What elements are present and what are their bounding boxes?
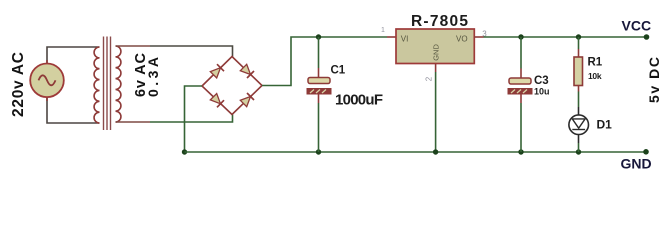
svg-text:C3: C3 [534, 75, 549, 87]
junction C3 top [518, 34, 523, 39]
wire VCC rail right [484, 36, 647, 38]
junction R1 top [576, 34, 581, 39]
junction C1 top [316, 34, 321, 39]
wire D1 to ground rail [578, 143, 580, 152]
junction regulator ground [433, 149, 438, 154]
bridge rectifier diamond [202, 57, 262, 115]
transformer TR1 secondary winding [116, 46, 121, 122]
ac source V1 [30, 60, 64, 101]
svg-text:0.3A: 0.3A [145, 57, 161, 97]
wire secondary bottom to bridge [116, 115, 233, 123]
node GND endpoint [643, 149, 649, 155]
junction C3 bottom [518, 149, 523, 154]
voltage regulator U1 R-7805 [387, 13, 474, 64]
value 1000uF [335, 92, 383, 109]
diode lower-left [210, 94, 224, 108]
wire ground rail [185, 151, 647, 153]
svg-text:GND: GND [431, 44, 440, 61]
wire primary loop [47, 47, 100, 123]
svg-text:GND: GND [621, 156, 652, 172]
node VCC endpoint [644, 34, 650, 40]
svg-text:D1: D1 [597, 118, 613, 132]
svg-text:220v AC: 220v AC [10, 52, 27, 117]
capacitor C3 [508, 37, 550, 152]
regulator ground pin [435, 64, 437, 153]
label 6v AC [133, 52, 149, 97]
svg-text:R1: R1 [588, 57, 603, 69]
label 220v AC [10, 52, 27, 117]
wire bridge left corner to ground rail [185, 86, 203, 152]
diode upper-right [240, 64, 254, 78]
svg-text:R-7805: R-7805 [411, 13, 468, 30]
wire bridge right corner up to VCC rail [262, 37, 387, 86]
junction C1 bottom [316, 149, 321, 154]
svg-text:1: 1 [381, 27, 385, 34]
svg-text:VO: VO [456, 35, 468, 44]
svg-text:C1: C1 [331, 65, 346, 77]
svg-text:10k: 10k [588, 71, 602, 81]
resistor R1 [574, 37, 603, 92]
capacitor C1 [307, 37, 346, 152]
wire secondary top to bridge [116, 46, 233, 57]
transformer TR1 primary winding [94, 47, 99, 123]
transformer core [104, 37, 111, 131]
svg-text:VCC: VCC [622, 18, 652, 34]
LED D1 [569, 107, 612, 143]
svg-text:10u: 10u [534, 87, 550, 97]
diode upper-left [210, 64, 224, 78]
svg-text:1000uF: 1000uF [335, 92, 383, 109]
junction at ground rail left [182, 149, 187, 154]
wire R1 to D1 [578, 92, 580, 108]
regulator output pin stub [474, 36, 483, 38]
diode lower-right [240, 93, 254, 107]
svg-text:2: 2 [424, 76, 433, 81]
label 0.3A [145, 57, 161, 97]
junction D1 bottom [576, 149, 581, 154]
svg-text:VI: VI [401, 35, 409, 44]
